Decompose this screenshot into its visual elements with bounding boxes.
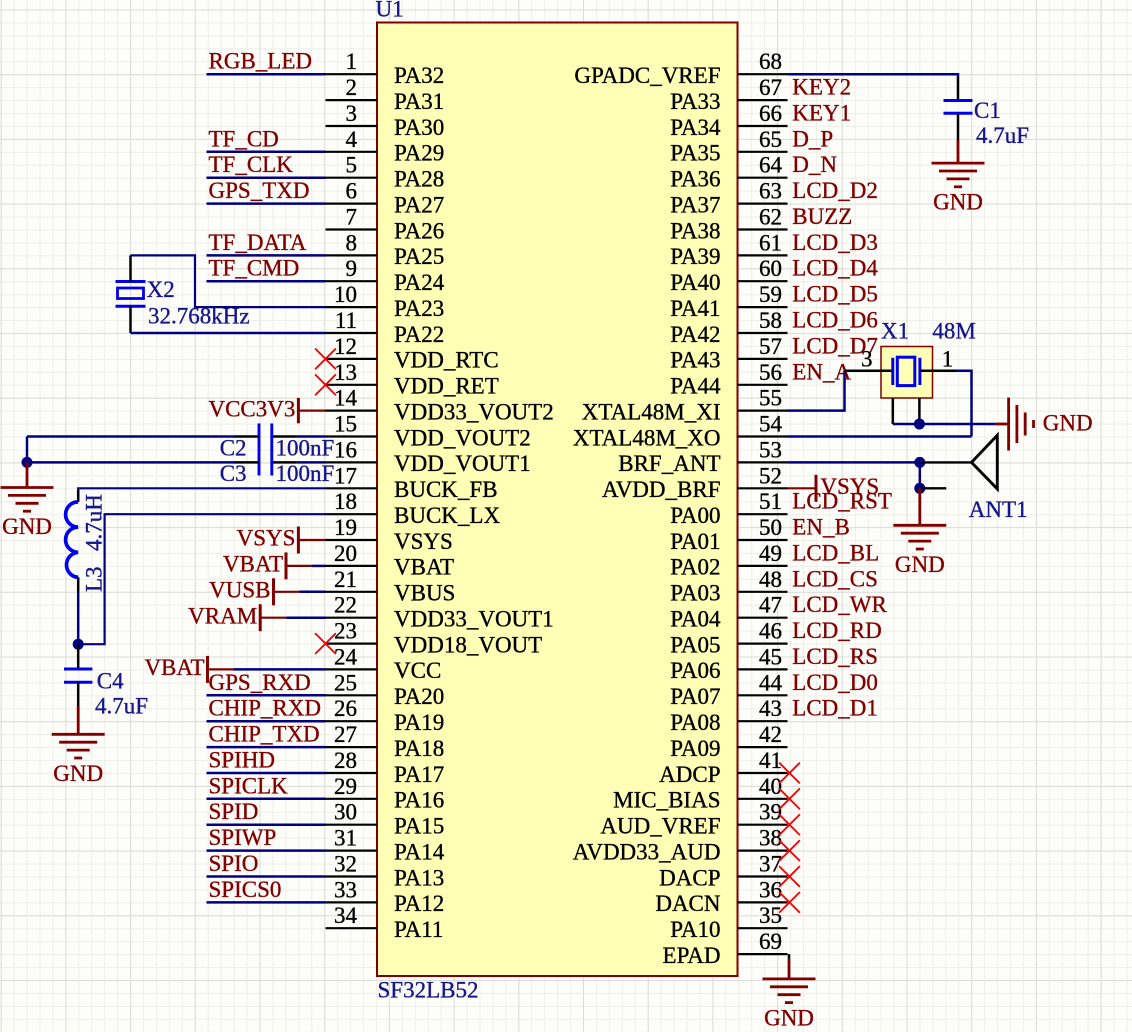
svg-text:PA06: PA06 xyxy=(670,658,720,683)
no-connect pin 40 xyxy=(779,788,800,809)
svg-text:51: 51 xyxy=(759,489,782,514)
svg-text:GND: GND xyxy=(1043,411,1093,436)
U1 pin 61 PA39 xyxy=(670,230,787,269)
crystal X1 body xyxy=(881,347,933,399)
ground GND at C1 xyxy=(932,163,985,215)
svg-text:28: 28 xyxy=(334,748,357,773)
svg-text:6: 6 xyxy=(346,179,358,204)
svg-text:PA04: PA04 xyxy=(670,607,721,632)
svg-text:PA08: PA08 xyxy=(670,710,720,735)
svg-text:67: 67 xyxy=(759,75,782,100)
svg-text:57: 57 xyxy=(759,334,782,359)
U1 pin 17 BUCK_FB xyxy=(326,463,498,502)
svg-text:PA24: PA24 xyxy=(394,270,445,295)
power port VCC3V3 pin14 xyxy=(208,396,325,423)
U1 pin 4 PA29 xyxy=(326,127,445,166)
svg-text:LCD_D3: LCD_D3 xyxy=(792,230,878,255)
svg-text:ADCP: ADCP xyxy=(659,762,720,787)
svg-text:48: 48 xyxy=(759,567,782,592)
ANT1 feed line xyxy=(920,461,972,463)
svg-text:D_P: D_P xyxy=(792,126,833,151)
wire net TF_DATA xyxy=(207,254,326,257)
svg-text:PA11: PA11 xyxy=(394,917,443,942)
svg-text:C1: C1 xyxy=(974,98,1001,123)
svg-text:3: 3 xyxy=(861,347,873,372)
svg-text:U1: U1 xyxy=(376,0,404,22)
svg-text:DACP: DACP xyxy=(659,865,720,890)
svg-text:CHIP_RXD: CHIP_RXD xyxy=(209,696,321,721)
svg-text:PA16: PA16 xyxy=(394,788,444,813)
svg-text:14: 14 xyxy=(334,386,358,411)
svg-text:PA01: PA01 xyxy=(670,529,720,554)
wire BRF_ANT pin53 xyxy=(788,461,920,464)
C4 bottom pin xyxy=(77,682,80,706)
U1 pin 52 AVDD_BRF xyxy=(602,463,787,502)
wire net SPIHD xyxy=(207,772,326,775)
no-connect pin 41 xyxy=(779,763,800,784)
wire X2 top to pin10 xyxy=(131,255,326,307)
wire net TF_CMD xyxy=(207,280,326,283)
svg-text:VSYS: VSYS xyxy=(237,526,296,551)
svg-text:VBUS: VBUS xyxy=(394,581,455,606)
wire X1 ground xyxy=(893,423,996,426)
U1 pin 15 VDD_VOUT2 xyxy=(326,412,531,451)
svg-text:PA40: PA40 xyxy=(670,270,720,295)
svg-text:TF_CD: TF_CD xyxy=(209,126,279,151)
L3 bottom pin xyxy=(77,577,80,592)
svg-text:48M: 48M xyxy=(932,319,975,344)
wire net TF_CLK xyxy=(207,176,326,179)
wire net SPICS0 xyxy=(207,901,326,904)
svg-text:40: 40 xyxy=(759,774,782,799)
wire pin15 to C2 xyxy=(297,435,326,438)
svg-text:BUZZ: BUZZ xyxy=(792,204,852,229)
svg-text:VDD_VOUT2: VDD_VOUT2 xyxy=(394,425,531,450)
wire left rail vertical xyxy=(26,437,29,463)
U1 pin 27 PA18 xyxy=(326,722,445,761)
svg-text:PA14: PA14 xyxy=(394,839,445,864)
power port VSYS pin19 xyxy=(237,526,326,554)
U1 pin 13 VDD_RET xyxy=(326,360,499,399)
svg-text:EN_B: EN_B xyxy=(792,515,850,540)
C4 top pin xyxy=(77,644,80,669)
svg-text:LCD_D6: LCD_D6 xyxy=(792,308,878,333)
U1 pin 32 PA13 xyxy=(326,852,445,891)
svg-text:VCC: VCC xyxy=(394,658,441,683)
svg-text:GND: GND xyxy=(933,190,983,215)
wire L3 to C4 xyxy=(77,592,80,644)
svg-text:LCD_D2: LCD_D2 xyxy=(792,178,878,203)
svg-text:LCD_D4: LCD_D4 xyxy=(792,256,878,281)
U1 pin 25 PA20 xyxy=(326,670,445,709)
wire C1 top xyxy=(957,73,960,78)
svg-text:30: 30 xyxy=(334,800,357,825)
svg-text:GND: GND xyxy=(2,514,52,539)
svg-text:VDD33_VOUT1: VDD33_VOUT1 xyxy=(394,607,554,632)
svg-text:54: 54 xyxy=(759,412,783,437)
svg-text:31: 31 xyxy=(334,826,357,851)
svg-text:17: 17 xyxy=(334,463,357,488)
svg-text:60: 60 xyxy=(759,256,782,281)
no-connect pin 36 xyxy=(779,892,800,913)
wire net GPS_RXD xyxy=(207,694,326,697)
U1 pin 43 PA08 xyxy=(670,696,787,735)
wire net SPIO xyxy=(207,875,326,878)
wire net TF_CD xyxy=(207,151,326,154)
svg-text:GND: GND xyxy=(895,552,945,577)
svg-text:PA15: PA15 xyxy=(394,814,444,839)
U1 pin 3 PA30 xyxy=(326,101,445,140)
svg-text:PA44: PA44 xyxy=(670,374,721,399)
svg-text:PA42: PA42 xyxy=(670,322,720,347)
svg-text:C4: C4 xyxy=(97,668,124,693)
svg-text:TF_DATA: TF_DATA xyxy=(209,230,307,255)
no-connect pin 13 xyxy=(315,374,336,395)
U1 pin 49 PA02 xyxy=(670,541,787,580)
wire pin16 to C3 xyxy=(297,461,326,464)
svg-text:LCD_CS: LCD_CS xyxy=(792,566,878,591)
crystal X1 element xyxy=(893,357,920,385)
svg-text:PA17: PA17 xyxy=(394,762,444,787)
capacitor C3 100nF xyxy=(259,449,272,475)
svg-text:29: 29 xyxy=(334,774,357,799)
svg-text:32: 32 xyxy=(334,852,357,877)
svg-text:PA27: PA27 xyxy=(394,192,444,217)
svg-text:PA31: PA31 xyxy=(394,89,444,114)
U1 pin 66 PA34 xyxy=(670,101,787,140)
svg-text:VUSB: VUSB xyxy=(209,578,270,603)
power port VRAM pin22 xyxy=(188,603,286,631)
svg-text:C3: C3 xyxy=(220,461,247,486)
U1 pin 7 PA26 xyxy=(326,205,445,244)
U1 pin 56 PA44 xyxy=(670,360,787,399)
no-connect pin 12 xyxy=(315,349,336,370)
wire net CHIP_RXD xyxy=(207,720,326,723)
svg-text:20: 20 xyxy=(334,541,357,566)
svg-text:PA05: PA05 xyxy=(670,632,720,657)
svg-text:PA43: PA43 xyxy=(670,348,720,373)
wire net CHIP_TXD xyxy=(207,746,326,749)
svg-text:SPIO: SPIO xyxy=(209,851,259,876)
U1 pin 19 VSYS xyxy=(326,515,453,554)
U1 pin 51 PA00 xyxy=(670,489,787,528)
wire net RGB_LED xyxy=(207,73,326,76)
power port VBAT pin20 xyxy=(223,552,312,580)
svg-text:42: 42 xyxy=(759,722,782,747)
U1 pin 38 AVDD33_AUD xyxy=(573,826,788,865)
U1 pin 10 PA23 xyxy=(326,282,445,321)
svg-text:X2: X2 xyxy=(147,277,175,302)
svg-text:39: 39 xyxy=(759,800,782,825)
EPAD ground stem xyxy=(788,959,791,979)
svg-text:PA07: PA07 xyxy=(670,684,720,709)
U1 pin 45 PA06 xyxy=(670,644,787,683)
svg-text:PA19: PA19 xyxy=(394,710,444,735)
svg-text:KEY2: KEY2 xyxy=(792,75,851,100)
svg-text:36: 36 xyxy=(759,877,782,902)
EPAD ground drop xyxy=(788,954,791,959)
svg-text:SPICLK: SPICLK xyxy=(209,773,289,798)
svg-text:GPS_TXD: GPS_TXD xyxy=(209,178,310,203)
svg-text:XTAL48M_XO: XTAL48M_XO xyxy=(573,425,721,450)
svg-text:BRF_ANT: BRF_ANT xyxy=(618,451,720,476)
ground GND at C2 C3 xyxy=(1,488,54,540)
svg-text:16: 16 xyxy=(334,437,357,462)
U1 pin 14 VDD33_VOUT2 xyxy=(326,386,554,425)
wire VRAM pin22 xyxy=(286,616,325,619)
U1 pin 20 VBAT xyxy=(326,541,455,580)
svg-text:GPS_RXD: GPS_RXD xyxy=(209,670,311,695)
svg-text:C2: C2 xyxy=(220,435,247,460)
wire net SPICLK xyxy=(207,798,326,801)
svg-text:4.7uH: 4.7uH xyxy=(82,494,107,551)
U1 pin 62 PA38 xyxy=(670,205,787,244)
C2 right pin xyxy=(272,435,297,438)
X1 ground lead left xyxy=(892,398,895,424)
svg-text:38: 38 xyxy=(759,826,782,851)
C3 right pin xyxy=(272,461,297,464)
U1 pin 36 DACN xyxy=(655,877,787,916)
svg-text:61: 61 xyxy=(759,230,782,255)
svg-text:PA00: PA00 xyxy=(670,503,720,528)
svg-text:LCD_D0: LCD_D0 xyxy=(792,670,878,695)
svg-text:49: 49 xyxy=(759,541,782,566)
U1 pin 26 PA19 xyxy=(326,696,445,735)
svg-text:65: 65 xyxy=(759,127,782,152)
svg-text:4.7uF: 4.7uF xyxy=(95,693,148,718)
svg-text:58: 58 xyxy=(759,308,782,333)
U1 pin 69 EPAD xyxy=(663,929,788,968)
U1 pin 21 VBUS xyxy=(326,567,456,606)
svg-text:PA36: PA36 xyxy=(670,167,720,192)
svg-text:25: 25 xyxy=(334,670,357,695)
U1 pin 59 PA41 xyxy=(670,282,787,321)
power port VSYS pin52 xyxy=(788,474,880,502)
wire C3 to left rail xyxy=(27,461,235,464)
wire XTAL48M_XI pin55 to X1 pin3 xyxy=(788,371,845,411)
svg-text:GPADC_VREF: GPADC_VREF xyxy=(574,63,720,88)
svg-text:PA29: PA29 xyxy=(394,141,444,166)
svg-text:KEY1: KEY1 xyxy=(792,101,851,126)
U1 pin 9 PA24 xyxy=(326,256,445,295)
X1 pin 3 lead xyxy=(845,370,893,373)
svg-text:BUCK_LX: BUCK_LX xyxy=(394,503,500,528)
stub at AVDD_BRF row xyxy=(920,487,947,489)
svg-text:59: 59 xyxy=(759,282,782,307)
svg-text:PA23: PA23 xyxy=(394,296,444,321)
svg-text:LCD_RD: LCD_RD xyxy=(792,618,881,643)
svg-text:PA03: PA03 xyxy=(670,581,720,606)
svg-text:TF_CMD: TF_CMD xyxy=(209,256,300,281)
wire BUCK_LX pin18 xyxy=(78,514,325,644)
svg-text:13: 13 xyxy=(334,360,357,385)
capacitor C4 xyxy=(64,669,92,682)
svg-text:62: 62 xyxy=(759,205,782,230)
svg-text:56: 56 xyxy=(759,360,782,385)
svg-text:27: 27 xyxy=(334,722,357,747)
U1 pin 31 PA14 xyxy=(326,826,445,865)
svg-text:PA37: PA37 xyxy=(670,192,720,217)
C3 left pin xyxy=(234,461,259,464)
wire C2 to left rail xyxy=(27,435,235,438)
U1 pin 30 PA15 xyxy=(326,800,445,839)
svg-text:VSYS: VSYS xyxy=(820,474,879,499)
svg-text:34: 34 xyxy=(334,903,358,928)
U1 pin 41 ADCP xyxy=(659,748,787,787)
svg-text:LCD_BL: LCD_BL xyxy=(792,540,879,565)
svg-text:12: 12 xyxy=(334,334,357,359)
U1 pin 6 PA27 xyxy=(326,179,445,218)
C1 bottom pin xyxy=(957,113,960,140)
svg-text:XTAL48M_XI: XTAL48M_XI xyxy=(582,399,721,424)
U1 pin 39 AUD_VREF xyxy=(600,800,787,839)
svg-text:PA09: PA09 xyxy=(670,736,720,761)
svg-text:VCC3V3: VCC3V3 xyxy=(208,396,295,421)
svg-text:ANT1: ANT1 xyxy=(969,497,1028,522)
inductor L3 4.7uH xyxy=(66,502,79,578)
svg-text:LCD_RS: LCD_RS xyxy=(792,644,878,669)
wire BUCK_FB pin17 xyxy=(78,488,325,502)
svg-text:SPIHD: SPIHD xyxy=(209,748,275,773)
svg-text:TF_CLK: TF_CLK xyxy=(209,152,294,177)
ground stub X1 xyxy=(995,423,1008,426)
svg-text:VDD_RTC: VDD_RTC xyxy=(394,348,499,373)
U1 pin 37 DACP xyxy=(659,852,787,891)
svg-text:PA22: PA22 xyxy=(394,322,444,347)
wire net SPID xyxy=(207,823,326,826)
U1 pin 1 PA32 xyxy=(326,49,445,88)
svg-text:L3: L3 xyxy=(82,566,107,592)
svg-text:50: 50 xyxy=(759,515,782,540)
U1 pin 5 PA28 xyxy=(326,153,445,192)
wire pin68 to C1 xyxy=(788,73,959,76)
U1 pin 42 PA09 xyxy=(670,722,787,761)
X1 ground lead right xyxy=(918,398,921,424)
X1 pin 1 lead xyxy=(920,370,958,373)
svg-text:PA13: PA13 xyxy=(394,865,444,890)
svg-text:PA25: PA25 xyxy=(394,244,444,269)
svg-text:9: 9 xyxy=(346,256,358,281)
svg-text:63: 63 xyxy=(759,179,782,204)
svg-text:PA28: PA28 xyxy=(394,167,444,192)
svg-text:2: 2 xyxy=(346,75,358,100)
junction antenna ground xyxy=(914,483,925,494)
svg-text:PA20: PA20 xyxy=(394,684,444,709)
svg-text:PA26: PA26 xyxy=(394,218,444,243)
svg-text:35: 35 xyxy=(759,903,782,928)
svg-text:11: 11 xyxy=(335,308,357,333)
svg-text:19: 19 xyxy=(334,515,357,540)
U1 pin 47 PA04 xyxy=(670,593,787,632)
svg-text:BUCK_FB: BUCK_FB xyxy=(394,477,498,502)
U1 pin 24 VCC xyxy=(326,644,442,683)
ground GND at EPAD xyxy=(763,979,816,1031)
svg-text:LCD_WR: LCD_WR xyxy=(792,592,887,617)
svg-text:37: 37 xyxy=(759,852,782,877)
svg-text:SPID: SPID xyxy=(209,799,259,824)
svg-text:22: 22 xyxy=(334,593,357,618)
svg-text:VBAT: VBAT xyxy=(394,555,454,580)
svg-text:GND: GND xyxy=(53,761,103,786)
svg-text:CHIP_TXD: CHIP_TXD xyxy=(209,722,320,747)
svg-text:PA32: PA32 xyxy=(394,63,444,88)
svg-text:PA34: PA34 xyxy=(670,115,721,140)
svg-text:SF32LB52: SF32LB52 xyxy=(378,978,479,1003)
junction left rail xyxy=(22,457,33,468)
svg-text:LCD_D1: LCD_D1 xyxy=(792,696,878,721)
junction X1 ground xyxy=(914,419,925,430)
U1 pin 64 PA36 xyxy=(670,153,787,192)
wire net SPIWP xyxy=(207,849,326,852)
svg-text:PA12: PA12 xyxy=(394,891,444,916)
antenna ANT1 xyxy=(972,435,998,489)
svg-text:MIC_BIAS: MIC_BIAS xyxy=(613,788,720,813)
svg-text:EN_A: EN_A xyxy=(792,359,851,384)
svg-text:AUD_VREF: AUD_VREF xyxy=(600,814,720,839)
svg-text:VDD_RET: VDD_RET xyxy=(394,374,499,399)
C2 left pin xyxy=(234,435,259,438)
U1 pin 44 PA07 xyxy=(670,670,787,709)
svg-text:8: 8 xyxy=(346,230,358,255)
no-connect pin 39 xyxy=(779,814,800,835)
svg-text:X1: X1 xyxy=(881,319,909,344)
ground GND at X1 sideways xyxy=(1009,398,1093,451)
wire net GPS_TXD xyxy=(207,202,326,205)
U1 pin 11 PA22 xyxy=(326,308,445,347)
ground stem antenna xyxy=(918,488,921,525)
C4 ground stem xyxy=(77,706,80,734)
U1 pin 2 PA31 xyxy=(326,75,445,114)
U1 pin 40 MIC_BIAS xyxy=(613,774,787,813)
U1 pin 50 PA01 xyxy=(670,515,787,554)
wire X2 bottom to pin11 xyxy=(131,332,326,335)
svg-text:PA02: PA02 xyxy=(670,555,720,580)
svg-text:SPICS0: SPICS0 xyxy=(209,877,282,902)
U1 pin 57 PA43 xyxy=(670,334,787,373)
svg-text:3: 3 xyxy=(346,101,358,126)
U1 pin 28 PA17 xyxy=(326,748,445,787)
wire antenna branch down xyxy=(919,462,922,488)
no-connect pin 23 xyxy=(315,633,336,654)
U1 pin 60 PA40 xyxy=(670,256,787,295)
U1 pin 29 PA16 xyxy=(326,774,445,813)
svg-text:47: 47 xyxy=(759,593,782,618)
svg-text:66: 66 xyxy=(759,101,782,126)
U1 pin 68 GPADC_VREF xyxy=(574,49,787,88)
U1 pin 12 VDD_RTC xyxy=(326,334,499,373)
svg-text:15: 15 xyxy=(334,412,357,437)
svg-text:21: 21 xyxy=(334,567,357,592)
svg-text:VDD33_VOUT2: VDD33_VOUT2 xyxy=(394,399,554,424)
svg-text:43: 43 xyxy=(759,696,782,721)
svg-text:55: 55 xyxy=(759,386,782,411)
U1 pin 63 PA37 xyxy=(670,179,787,218)
wire VBAT pin20 xyxy=(312,565,326,568)
junction BRF_ANT xyxy=(914,457,925,468)
svg-text:100nF: 100nF xyxy=(276,461,335,486)
svg-text:DACN: DACN xyxy=(655,891,721,916)
svg-text:4: 4 xyxy=(346,127,358,152)
svg-text:RGB_LED: RGB_LED xyxy=(209,49,313,74)
svg-text:10: 10 xyxy=(334,282,357,307)
ground GND at C4 xyxy=(52,734,105,786)
svg-text:LCD_D5: LCD_D5 xyxy=(792,282,878,307)
svg-text:AVDD33_AUD: AVDD33_AUD xyxy=(573,839,721,864)
power port VUSB pin21 xyxy=(209,578,299,606)
svg-text:VBAT: VBAT xyxy=(223,552,283,577)
svg-text:46: 46 xyxy=(759,619,782,644)
svg-text:7: 7 xyxy=(346,205,358,230)
